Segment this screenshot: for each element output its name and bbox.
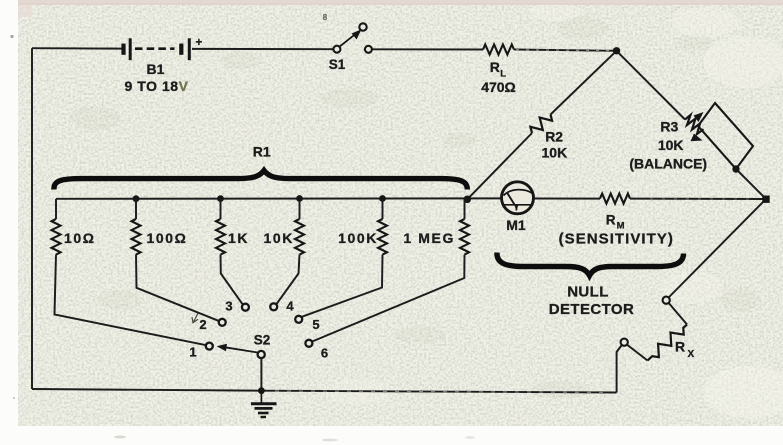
node left bridge junction	[464, 196, 472, 204]
svg-text:S2: S2	[254, 332, 271, 347]
light scan patches	[326, 3, 783, 418]
pink top strip	[18, 0, 783, 5]
wire 100K top lead	[382, 199, 384, 219]
svg-text:1: 1	[189, 345, 196, 360]
node ground junction	[258, 387, 265, 394]
svg-text:2: 2	[199, 317, 206, 332]
switch S1	[333, 23, 372, 53]
wire M1 to RM	[534, 198, 601, 200]
wire R2 diagonal lower	[467, 133, 532, 199]
battery B1	[124, 38, 190, 60]
wire 1K top lead	[220, 199, 222, 219]
wire RM to right vertex	[630, 198, 766, 200]
svg-text:8: 8	[323, 13, 328, 22]
svg-text:B1: B1	[147, 61, 165, 77]
switch S1 arm	[340, 32, 358, 46]
svg-text:10K: 10K	[542, 145, 568, 161]
wire 100K bottom lead	[302, 255, 383, 317]
switch S2 pole	[258, 351, 265, 358]
wire 10ohm bottom lead	[55, 255, 207, 346]
wire R3 bottom to right vertex	[736, 169, 766, 199]
switch S2 contact 4	[270, 303, 277, 310]
wire 1MEG top lead	[464, 199, 466, 219]
svg-text:10K: 10K	[658, 137, 684, 153]
wire left vertical	[31, 48, 33, 389]
svg-text:(SENSITIVITY): (SENSITIVITY)	[559, 231, 674, 248]
switch S2 contact 5	[295, 316, 302, 323]
svg-text:R: R	[675, 339, 685, 355]
margin specks	[10, 35, 13, 38]
resistor RX	[644, 321, 690, 365]
wire 1K bottom lead	[221, 255, 243, 305]
wire S1 to RL	[372, 48, 483, 50]
wire middle rail bus	[56, 197, 502, 199]
resistor RM	[600, 194, 630, 204]
resistor 100K	[378, 219, 387, 255]
wire R2 diagonal upper	[551, 51, 617, 115]
switch S2 arm	[225, 347, 258, 352]
wire S2 pole to ground	[260, 358, 262, 391]
terminal upper	[663, 297, 670, 304]
resistor 1MEG	[460, 219, 469, 255]
svg-text:9 TO 18V: 9 TO 18V	[124, 78, 188, 94]
svg-text:4: 4	[286, 299, 294, 314]
node bus dot 4	[379, 195, 386, 202]
wire RL to top node	[514, 50, 617, 51]
artifact arrow near 2	[192, 314, 198, 323]
brace NULL DETECTOR	[497, 253, 684, 276]
node bus dot 3	[296, 195, 303, 202]
svg-text:(BALANCE): (BALANCE)	[629, 155, 707, 171]
svg-text:10K: 10K	[264, 230, 294, 246]
wire bottom rail	[32, 389, 617, 393]
terminal lower	[621, 339, 628, 346]
wire right vertex to upper test terminal	[669, 199, 766, 298]
scan fade overlays	[516, 49, 610, 52]
wire 10ohm top lead	[55, 199, 57, 219]
wire 100ohm top lead	[135, 199, 137, 219]
resistor RL	[483, 45, 514, 55]
switch S2 contact 2	[219, 319, 226, 326]
wire 100ohm bottom lead	[136, 255, 219, 322]
node bus dot 2	[217, 195, 224, 202]
svg-text:R1: R1	[253, 144, 271, 160]
svg-text:R: R	[490, 59, 500, 75]
potentiometer R3 body	[698, 103, 753, 169]
wire 1MEG bottom lead	[312, 255, 464, 342]
svg-text:10Ω: 10Ω	[64, 230, 96, 246]
svg-text:100Ω: 100Ω	[147, 230, 188, 246]
node right vertex	[762, 196, 769, 203]
svg-text:3: 3	[225, 299, 232, 314]
svg-text:NULL: NULL	[567, 284, 609, 301]
svg-text:R3: R3	[660, 119, 678, 135]
resistor 1K	[216, 219, 225, 255]
resistor 100 ohm	[132, 219, 141, 255]
potentiometer R3 wiper arrows	[685, 115, 704, 134]
wire R3 diagonal from top node	[617, 51, 686, 120]
svg-text:DETECTOR: DETECTOR	[549, 301, 634, 318]
node top junction	[613, 47, 620, 54]
wire upper terminal to RX	[669, 303, 688, 325]
svg-text:L: L	[500, 69, 506, 80]
wire bottom right riser to lower terminal	[617, 345, 622, 393]
wire battery to S1	[192, 48, 334, 50]
wire 10K bottom lead	[277, 255, 300, 305]
svg-text:R2: R2	[545, 129, 563, 145]
wire RX to lower terminal	[627, 345, 648, 361]
svg-text:470Ω: 470Ω	[481, 79, 516, 95]
meter M1	[502, 182, 534, 214]
switch S2 contact 6	[305, 340, 312, 347]
svg-text:R: R	[606, 213, 616, 228]
svg-text:X: X	[688, 349, 695, 360]
resistor 10K	[295, 219, 304, 255]
svg-text:M1: M1	[506, 217, 526, 233]
brace R1	[54, 171, 467, 190]
ground	[251, 391, 277, 417]
svg-text:1K: 1K	[228, 230, 249, 246]
svg-text:6: 6	[321, 346, 328, 361]
resistor R2	[528, 111, 554, 137]
node R3 bottom junction	[732, 165, 739, 172]
svg-text:5: 5	[312, 317, 319, 332]
svg-text:+: +	[196, 37, 203, 49]
wire 10K top lead	[299, 199, 301, 219]
svg-text:S1: S1	[329, 57, 346, 72]
switch S2 contact 3	[242, 304, 249, 311]
wire top rail segment to battery	[32, 47, 122, 49]
svg-text:1 MEG: 1 MEG	[403, 230, 455, 246]
svg-text:100K: 100K	[338, 230, 378, 246]
resistor 10 ohm	[52, 219, 61, 255]
node bus dot 1	[133, 195, 140, 202]
switch S2 contact 1	[206, 343, 213, 350]
